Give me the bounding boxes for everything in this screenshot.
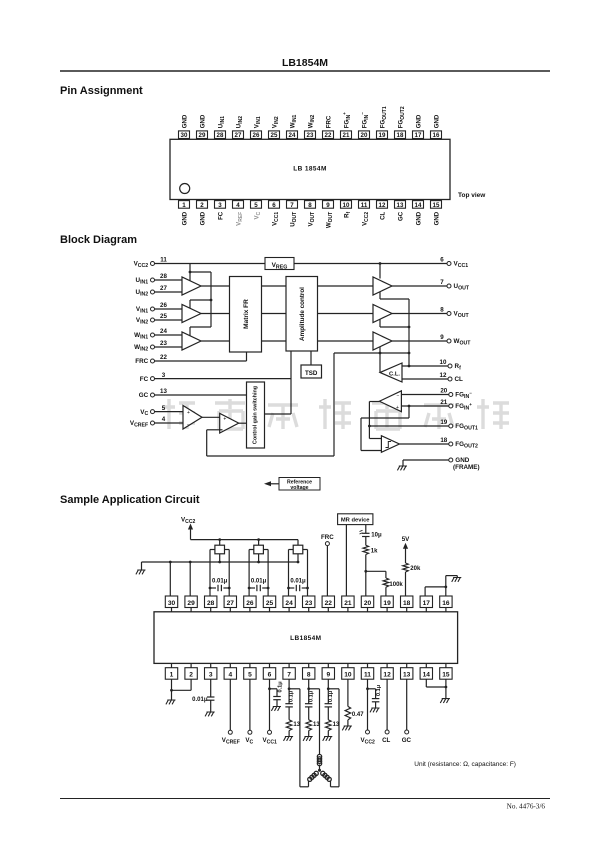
snubber RC pin 8 (0.1u + 13)	[303, 679, 320, 741]
svg-text:6: 6	[440, 257, 444, 264]
svg-text:100k: 100k	[389, 582, 403, 588]
svg-text:3: 3	[162, 372, 166, 379]
capacitor 0.01u (V)	[248, 579, 270, 592]
svg-text:8: 8	[440, 307, 444, 314]
pin 30 (top) box and label	[179, 114, 190, 139]
svg-text:GND: GND	[181, 211, 188, 225]
svg-text:16: 16	[442, 600, 450, 607]
svg-text:FC: FC	[217, 211, 224, 220]
wire gain feedback	[207, 430, 334, 456]
node Rf pin 10	[440, 359, 462, 371]
svg-text:GND: GND	[415, 114, 422, 128]
svg-text:12: 12	[383, 672, 391, 679]
wire UOUT	[392, 285, 447, 287]
pin 20 (top) box and label	[359, 112, 370, 139]
pin 21 (top) box and label	[341, 112, 352, 139]
svg-text:WOUT: WOUT	[454, 338, 472, 346]
wire GND frame	[403, 459, 449, 461]
node UIN1 pin 28	[136, 273, 168, 285]
svg-text:WOUT: WOUT	[325, 212, 333, 228]
svg-text:10: 10	[343, 202, 350, 209]
svg-text:22: 22	[325, 132, 332, 139]
svg-text:CL: CL	[379, 212, 386, 220]
svg-text:Amplitude control: Amplitude control	[299, 287, 306, 341]
wire gain amp output	[239, 422, 247, 424]
reference voltage legend	[264, 478, 320, 491]
svg-text:GND: GND	[181, 114, 188, 128]
wire buffer to gain amp	[202, 416, 220, 418]
svg-text:18: 18	[403, 600, 411, 607]
svg-text:FGOUT1: FGOUT1	[455, 423, 478, 431]
svg-text:FGOUT2: FGOUT2	[397, 106, 405, 128]
capacitor 10u	[360, 525, 382, 546]
IC package outline LB1854M top view	[170, 139, 450, 199]
svg-text:0.47: 0.47	[352, 712, 364, 718]
svg-text:VCC1: VCC1	[454, 261, 469, 269]
svg-text:11: 11	[361, 202, 368, 209]
svg-text:GC: GC	[402, 737, 412, 744]
wire pin30 to ground rail	[169, 562, 171, 596]
wire VCC2 rail	[191, 538, 299, 545]
block Amplitude control	[286, 277, 318, 352]
node UOUT pin 7	[440, 279, 470, 291]
header title LB1854M	[282, 57, 328, 69]
wire TSD to Amplitude control	[310, 351, 312, 365]
pin 7 box (application, bottom)	[283, 663, 295, 679]
pin 23 box (application, top)	[303, 596, 315, 612]
svg-text:GC: GC	[397, 211, 404, 221]
svg-text:18: 18	[397, 132, 404, 139]
svg-text:9: 9	[326, 202, 330, 209]
capacitor 0.1u (VCC1)	[270, 681, 284, 707]
wire UIN2	[155, 291, 183, 293]
svg-text:17: 17	[423, 600, 431, 607]
svg-text:VC: VC	[140, 409, 148, 417]
svg-text:FRC: FRC	[135, 358, 148, 365]
pin 22 box (application, top)	[322, 596, 334, 612]
svg-text:LB1854M: LB1854M	[290, 635, 321, 642]
svg-text:(FRAME): (FRAME)	[453, 464, 480, 471]
svg-text:27: 27	[235, 132, 242, 139]
pin 28 box (application, top)	[205, 596, 217, 612]
svg-text:26: 26	[160, 302, 167, 309]
svg-text:0.1μ: 0.1μ	[308, 690, 314, 702]
pin 16 (top) box and label	[431, 114, 442, 139]
pin 2 box (application, bottom)	[185, 663, 197, 679]
svg-text:GND: GND	[433, 211, 440, 225]
node FC pin 3	[140, 372, 166, 383]
wire FGOUT2	[399, 443, 448, 445]
pin 30 box (application, top)	[165, 596, 177, 612]
pin 28 (top) box and label	[215, 116, 226, 139]
node FGOUT2 pin 18	[440, 437, 478, 449]
pin 19 box (application, top)	[381, 596, 393, 612]
block MR device	[338, 514, 373, 525]
wire branch to 100k	[366, 570, 386, 572]
wire FG amp output to FGOUT1	[368, 402, 449, 439]
svg-text:0.1μ: 0.1μ	[277, 681, 283, 693]
resistor 0.47 (pin 10)	[345, 679, 364, 726]
wire hall H3 to pins 24/23	[289, 550, 308, 597]
wire VC	[155, 411, 184, 413]
svg-text:WIN1: WIN1	[289, 114, 297, 128]
ground (VCC2 cap)	[370, 708, 380, 712]
capacitor 0.01u (U)	[209, 579, 231, 592]
svg-text:0.01μ: 0.01μ	[212, 579, 228, 585]
wire WIN2	[155, 346, 183, 348]
pin 10 (bottom) box and label	[341, 201, 352, 218]
svg-text:MR device: MR device	[341, 518, 370, 524]
svg-text:11: 11	[364, 672, 371, 679]
svg-text:FGIN+: FGIN+	[342, 112, 352, 128]
node CL terminal	[382, 679, 390, 744]
svg-text:+: +	[187, 410, 190, 416]
wire ground rail (hall)	[142, 554, 300, 570]
svg-text:28: 28	[207, 600, 215, 607]
wire Rf	[402, 365, 448, 367]
wire FGIN+ wraparound to schmitt	[361, 406, 409, 451]
pin 2 (bottom) box and label	[197, 201, 208, 226]
wire W amp to Matrix FR	[201, 340, 230, 342]
pin 15 (bottom) box and label	[431, 201, 442, 226]
resistor 20k	[403, 563, 421, 596]
wire pins 1/2 to ground	[170, 679, 191, 700]
svg-text:18: 18	[440, 437, 447, 444]
svg-text:8: 8	[307, 672, 311, 679]
node GND FRAME	[449, 457, 480, 471]
pin 24 (top) box and label	[287, 114, 298, 139]
node VC terminal	[245, 679, 253, 745]
wire power drop to U output amp	[379, 264, 381, 279]
svg-text:3: 3	[209, 672, 213, 679]
IC body LB1854M	[154, 612, 458, 664]
pin 1 (bottom) box and label	[179, 201, 190, 226]
wire Matrix FR to Amplitude control (U)	[262, 285, 287, 287]
svg-text:VCC1: VCC1	[263, 737, 277, 745]
wire Matrix FR to Amplitude control (W)	[262, 340, 287, 342]
svg-text:0.1μ: 0.1μ	[289, 690, 295, 702]
node VOUT pin 8	[440, 307, 469, 319]
snubber RC pin 7 (0.1u + 13)	[284, 679, 301, 741]
wire VIN1	[155, 308, 183, 310]
svg-text:Rf: Rf	[455, 363, 462, 371]
svg-text:VCC2: VCC2	[361, 212, 369, 226]
svg-text:13: 13	[160, 388, 167, 395]
svg-text:+: +	[223, 417, 226, 423]
svg-text:23: 23	[160, 340, 167, 347]
svg-text:4: 4	[236, 202, 240, 209]
op-amp gain stage	[220, 413, 239, 433]
pin 21 box (application, top)	[342, 596, 354, 612]
svg-text:UOUT: UOUT	[289, 212, 297, 227]
pin 18 box (application, top)	[401, 596, 413, 612]
node WIN1 pin 24	[134, 328, 167, 340]
comparator C.L.	[380, 363, 402, 382]
svg-text:5: 5	[162, 405, 166, 412]
pin 17 (top) box and label	[413, 114, 424, 139]
svg-text:GC: GC	[139, 392, 149, 399]
pin 5 (bottom) box and label	[251, 201, 262, 220]
pin 19 (top) box and label	[377, 106, 388, 139]
svg-text:19: 19	[379, 132, 386, 139]
node VCREF pin 4	[130, 416, 166, 428]
svg-text:VC: VC	[245, 737, 253, 745]
svg-text:25: 25	[271, 132, 278, 139]
svg-text:22: 22	[160, 354, 167, 361]
svg-text:CL: CL	[382, 737, 390, 744]
svg-text:21: 21	[344, 600, 352, 607]
node VCC1 pin 6	[440, 257, 468, 269]
pin 12 box (application, bottom)	[381, 663, 393, 679]
svg-text:TSD: TSD	[305, 370, 318, 377]
hall element H1	[215, 545, 225, 554]
svg-text:−: −	[397, 393, 400, 399]
svg-text:8: 8	[308, 202, 312, 209]
svg-text:CL: CL	[455, 376, 464, 383]
svg-text:Pin Assignment: Pin Assignment	[60, 85, 143, 97]
op-amp U output	[373, 277, 392, 295]
block TSD	[301, 365, 322, 378]
svg-text:24: 24	[289, 132, 296, 139]
pin 9 (bottom) box and label	[323, 201, 334, 229]
wire FC	[155, 378, 292, 380]
ground (pins 1/2)	[166, 700, 176, 704]
pin 7 (bottom) box and label	[287, 201, 298, 227]
pin 25 (top) box and label	[269, 116, 280, 139]
wire Amplitude control to U output amp	[318, 285, 374, 287]
node VCREF terminal	[222, 679, 240, 745]
ground (pin3 cap)	[205, 712, 215, 716]
svg-text:Sample Application Circuit: Sample Application Circuit	[60, 494, 200, 506]
svg-text:6: 6	[268, 672, 272, 679]
svg-text:7: 7	[290, 202, 294, 209]
resistor 100k	[383, 578, 403, 596]
pin 11 box (application, bottom)	[361, 663, 373, 679]
capacitor 0.01u (FC)	[192, 679, 214, 712]
pin 6 (bottom) box and label	[269, 201, 280, 226]
svg-text:VC: VC	[253, 211, 261, 219]
pin 24 box (application, top)	[283, 596, 295, 612]
pin 3 (bottom) box and label	[215, 201, 226, 220]
block Matrix FR	[230, 277, 262, 353]
pin 22 (top) box and label	[323, 115, 334, 139]
watermark (light gray)	[163, 399, 509, 429]
unit note	[414, 761, 516, 768]
node FGIN- pin 20	[440, 388, 472, 400]
pin 29 box (application, top)	[185, 596, 197, 612]
node VCC2 terminal	[361, 679, 375, 745]
svg-text:UIN1: UIN1	[217, 116, 225, 128]
op-amp FG input	[379, 391, 401, 412]
wire VOUT	[392, 313, 447, 315]
pin 1 box (application, bottom)	[165, 663, 177, 679]
svg-text:0.01μ: 0.01μ	[290, 579, 306, 585]
pin 27 (top) box and label	[233, 116, 244, 139]
svg-text:24: 24	[160, 328, 167, 335]
svg-text:−: −	[187, 423, 190, 429]
svg-text:23: 23	[305, 600, 313, 607]
svg-text:26: 26	[253, 132, 260, 139]
svg-text:13: 13	[397, 202, 404, 209]
svg-text:Block Diagram: Block Diagram	[60, 234, 137, 246]
pin 17 box (application, top)	[420, 596, 432, 612]
svg-text:+: +	[396, 405, 399, 411]
svg-text:12: 12	[379, 202, 386, 209]
ground (pins 14/15)	[440, 699, 450, 703]
pin 23 (top) box and label	[305, 114, 316, 139]
pin 13 box (application, bottom)	[401, 663, 413, 679]
node UIN2 pin 27	[136, 285, 168, 297]
svg-text:WIN2: WIN2	[134, 344, 148, 352]
svg-text:3: 3	[218, 202, 222, 209]
section title Sample Application Circuit	[60, 494, 200, 506]
section title Block Diagram	[60, 234, 137, 246]
pin 26 (top) box and label	[251, 116, 262, 139]
svg-text:28: 28	[217, 132, 224, 139]
svg-text:28: 28	[160, 273, 167, 280]
pin 14 (bottom) box and label	[413, 201, 424, 226]
svg-text:5: 5	[254, 202, 258, 209]
wire hall H2 to pins 26/25	[249, 550, 268, 597]
svg-text:4: 4	[162, 416, 166, 423]
svg-text:VCREF: VCREF	[222, 737, 240, 745]
wire pins 14/15 to ground	[426, 679, 447, 698]
svg-text:5V: 5V	[402, 536, 410, 543]
svg-text:VOUT: VOUT	[454, 311, 470, 319]
svg-text:10μ: 10μ	[371, 533, 382, 539]
wire CL	[402, 378, 448, 380]
svg-text:7: 7	[287, 672, 291, 679]
wire FGIN+	[401, 405, 448, 407]
svg-text:14: 14	[423, 672, 431, 679]
svg-text:10: 10	[440, 359, 447, 366]
wire VIN2	[155, 319, 183, 321]
wire WIN1	[155, 334, 183, 336]
pin 9 box (application, bottom)	[322, 663, 334, 679]
wire VCREF	[155, 422, 184, 424]
pin 18 (top) box and label	[395, 106, 406, 139]
svg-text:0.01μ: 0.01μ	[251, 579, 267, 585]
op-amp V input	[182, 305, 201, 323]
svg-text:6: 6	[272, 202, 276, 209]
pin 27 box (application, top)	[224, 596, 236, 612]
op-amp VC buffer	[183, 406, 202, 430]
pin 20 box (application, top)	[361, 596, 373, 612]
wire WOUT	[392, 340, 447, 342]
svg-text:15: 15	[433, 202, 440, 209]
capacitor 0.01u (W)	[287, 579, 309, 592]
svg-text:20k: 20k	[410, 566, 421, 572]
svg-text:0.1μ: 0.1μ	[376, 684, 382, 696]
node VCC2 pin 11	[134, 257, 168, 269]
svg-text:2: 2	[200, 202, 204, 209]
pin 4 (bottom) box and label	[233, 201, 244, 226]
header rule	[60, 70, 550, 72]
svg-text:21: 21	[343, 132, 350, 139]
svg-text:Top view: Top view	[458, 192, 486, 199]
pin 8 (bottom) box and label	[305, 201, 316, 227]
wire input-amp bias chain	[189, 264, 213, 337]
svg-text:voltage: voltage	[290, 485, 308, 491]
ground (frame)	[397, 466, 407, 470]
wire UIN1	[155, 279, 183, 281]
svg-text:20: 20	[361, 132, 368, 139]
node 5V supply	[402, 536, 410, 563]
svg-text:FC: FC	[140, 376, 149, 383]
svg-text:20: 20	[364, 600, 372, 607]
svg-text:12: 12	[440, 372, 447, 379]
svg-text:UIN2: UIN2	[136, 289, 149, 297]
wire Amplitude control to V output amp	[318, 313, 374, 315]
pin 1 index marker	[180, 184, 190, 194]
svg-text:27: 27	[227, 600, 235, 607]
svg-text:UIN2: UIN2	[235, 116, 243, 128]
ground (pins 17/16)	[452, 578, 462, 582]
svg-text:30: 30	[168, 600, 176, 607]
wire feedback bus	[334, 292, 410, 457]
node VIN2 pin 25	[136, 313, 168, 325]
node VC pin 5	[140, 405, 166, 417]
node CL pin 12	[440, 372, 463, 383]
svg-text:10: 10	[344, 672, 352, 679]
wire VREG to VCC1	[294, 263, 447, 265]
svg-text:VCREF: VCREF	[130, 420, 148, 428]
pin 26 box (application, top)	[244, 596, 256, 612]
pin 16 box (application, top)	[440, 596, 452, 612]
svg-text:1: 1	[182, 202, 186, 209]
svg-text:FGIN−: FGIN−	[455, 390, 472, 400]
wire Amplitude control bottom drop	[290, 351, 292, 414]
wire GC to control gain switching	[155, 394, 247, 396]
pin 5 box (application, bottom)	[244, 663, 256, 679]
wire Amplitude control to W output amp	[318, 340, 374, 342]
svg-text:VREF: VREF	[235, 212, 243, 226]
node FRC pin 22	[135, 354, 167, 365]
svg-text:29: 29	[199, 132, 206, 139]
svg-text:16: 16	[433, 132, 440, 139]
node VIN1 pin 26	[136, 302, 168, 314]
svg-text:VCC2: VCC2	[361, 737, 375, 745]
node FGIN+ pin 21	[440, 399, 472, 411]
svg-text:0.01μ: 0.01μ	[192, 697, 208, 703]
pin 11 (bottom) box and label	[359, 201, 370, 226]
wire pins 17/16 to ground	[425, 576, 457, 596]
wire VCC2 to VREG	[155, 263, 266, 265]
svg-text:FRC: FRC	[325, 115, 332, 128]
svg-text:14: 14	[415, 202, 422, 209]
svg-text:1k: 1k	[371, 549, 378, 555]
wire U amp to Matrix FR	[201, 285, 230, 287]
svg-text:GND: GND	[433, 114, 440, 128]
pin 4 box (application, bottom)	[224, 663, 236, 679]
wire FGIN-	[401, 394, 448, 396]
svg-text:26: 26	[246, 600, 254, 607]
svg-text:0.1μ: 0.1μ	[328, 690, 334, 702]
svg-text:FGOUT2: FGOUT2	[455, 441, 478, 449]
snubber RC pin 9 (0.1u + 13)	[323, 679, 340, 741]
svg-text:1: 1	[170, 672, 174, 679]
node GC pin 13	[139, 388, 168, 399]
svg-text:FGIN+: FGIN+	[455, 402, 472, 412]
pin 13 (bottom) box and label	[395, 201, 406, 221]
svg-text:VCC2: VCC2	[134, 261, 149, 269]
section title Pin Assignment	[60, 85, 143, 97]
op-amp W input	[182, 332, 201, 350]
svg-text:20: 20	[440, 388, 447, 395]
svg-text:FRC: FRC	[321, 534, 334, 541]
wire pin29 to ground rail	[189, 562, 191, 596]
svg-text:FGIN−: FGIN−	[360, 112, 370, 128]
